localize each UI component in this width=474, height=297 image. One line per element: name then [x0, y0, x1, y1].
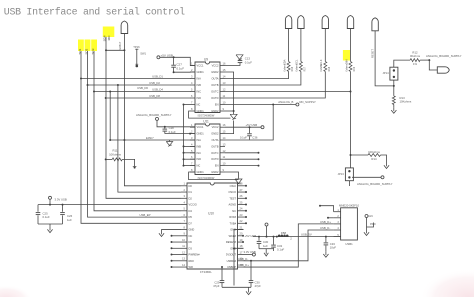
U10 pin 4 [181, 204, 187, 206]
wire U10 pin19 stub [242, 241, 245, 243]
svg-text:10: 10 [223, 162, 226, 166]
net label DIN (highlighted) [343, 50, 350, 61]
svg-text:+5V USB: +5V USB [161, 53, 173, 57]
svg-text:MNE20-5K5F10: MNE20-5K5F10 [339, 203, 359, 207]
resistor R17 [300, 28, 302, 62]
svg-text:22: 22 [240, 219, 243, 223]
junction U11 pin 4 [183, 145, 185, 147]
watermark blob bottom-left [0, 285, 32, 297]
svg-text:2: 2 [191, 130, 193, 134]
jumper JP13 [345, 168, 353, 181]
capacitor C33 [325, 237, 327, 243]
svg-text:2: 2 [191, 68, 193, 72]
svg-text:10uF: 10uF [330, 246, 337, 250]
U10 pin 19 [238, 241, 244, 243]
wire [174, 71, 195, 73]
svg-text:JP14: JP14 [382, 71, 389, 75]
junction U11 pin 6 [183, 158, 185, 160]
net USB_D- wire [244, 230, 334, 261]
svg-text:12: 12 [182, 250, 185, 254]
wire [350, 92, 352, 168]
net USB_D2 wire [88, 84, 191, 86]
wire U10 pin20 stub [242, 235, 245, 237]
node +5V USB [157, 56, 160, 59]
svg-text:3: 3 [184, 194, 186, 198]
junction U11 pin 5 [183, 152, 185, 154]
svg-text:U10: U10 [208, 212, 214, 216]
svg-text:EN: EN [215, 103, 219, 107]
svg-text:ANALOG_BOARD_SUPPLY: ANALOG_BOARD_SUPPLY [357, 182, 393, 186]
bus tap U10 pin 9 [172, 235, 182, 237]
svg-text:R18: R18 [328, 66, 331, 71]
U10 pin 1 [181, 185, 187, 187]
U10 pin 16 [238, 260, 244, 262]
bus tap U10 pin 12 [172, 254, 182, 256]
svg-text:OUTC: OUTC [211, 90, 218, 94]
svg-text:11: 11 [223, 94, 226, 98]
U11 pin 10 [220, 165, 225, 167]
junction [123, 49, 125, 51]
svg-text:13: 13 [182, 257, 185, 261]
USB1 pin 5 [334, 236, 341, 238]
svg-text:1%: 1% [413, 62, 418, 66]
capacitor C36 [249, 127, 251, 133]
bus tap U10 pin 26 [244, 197, 247, 199]
wire [375, 31, 394, 86]
svg-text:0.1uF: 0.1uF [240, 136, 247, 140]
svg-text:8: 8 [184, 225, 186, 229]
U11 pin 6 [190, 158, 195, 160]
svg-text:RESET: RESET [371, 49, 375, 58]
U11 pin 2 [190, 133, 195, 135]
wire [124, 34, 181, 186]
svg-text:1uF: 1uF [263, 244, 268, 248]
svg-text:D5: D5 [189, 215, 193, 219]
svg-text:USB_D8: USB_D8 [149, 94, 160, 98]
svg-text:U9: U9 [204, 58, 208, 62]
svg-text:OUTB: OUTB [211, 83, 218, 87]
resistor R19 [350, 28, 352, 62]
U11 pin 5 [190, 152, 195, 154]
wire U11 pin8 to ground [189, 172, 239, 180]
svg-text:USB_D1: USB_D1 [152, 74, 163, 78]
svg-text:USB Interface and serial contr: USB Interface and serial control [4, 7, 185, 18]
svg-text:D1: D1 [189, 190, 193, 194]
svg-text:1: 1 [191, 62, 193, 66]
svg-text:USB_5V: USB_5V [301, 233, 312, 237]
svg-text:TEST: TEST [229, 196, 236, 200]
svg-text:47pF: 47pF [213, 284, 220, 288]
svg-text:NC: NC [197, 164, 201, 168]
svg-text:2: 2 [290, 237, 292, 241]
ground [161, 231, 163, 235]
svg-text:11: 11 [182, 244, 185, 248]
svg-text:U11: U11 [203, 120, 209, 124]
U10 pin 26 [238, 197, 244, 199]
U11 pin 13 [220, 145, 225, 147]
ground [366, 230, 368, 234]
svg-text:GND2: GND2 [211, 70, 219, 74]
U11 pin 8 [190, 171, 195, 173]
junction [173, 56, 175, 58]
svg-text:RD#: RD# [189, 259, 195, 263]
net USB_D8 wire [106, 97, 191, 99]
svg-text:0.1uF: 0.1uF [245, 60, 252, 64]
svg-text:RESET#: RESET# [226, 240, 237, 244]
U11 pin 1 [190, 126, 195, 128]
junction [350, 91, 352, 93]
svg-text:GND: GND [189, 228, 195, 232]
svg-text:7: 7 [191, 101, 193, 105]
wire [122, 159, 134, 166]
wire [225, 63, 240, 66]
U9 pin 8 [190, 110, 195, 112]
bus wire [106, 37, 181, 199]
svg-text:TP16: TP16 [133, 45, 140, 49]
wire U9 pin8 to ground [189, 111, 231, 118]
svg-text:1uF: 1uF [67, 218, 72, 222]
svg-text:0ohms: 0ohms [345, 63, 348, 71]
svg-text:+5V USB: +5V USB [246, 123, 258, 127]
U9 pin 6 [190, 97, 195, 99]
svg-text:0.1uF: 0.1uF [176, 67, 184, 71]
ground [235, 179, 242, 184]
svg-text:GND1: GND1 [197, 70, 205, 74]
U10 pin 21 [238, 229, 244, 231]
svg-text:USB_D-: USB_D- [320, 226, 330, 230]
node 3.3V USB at pin17 [244, 254, 253, 256]
bus wire [118, 85, 181, 192]
svg-text:OUTA: OUTA [211, 77, 218, 81]
net E0SI7 wire [110, 139, 195, 141]
svg-text:ISO7240MDW: ISO7240MDW [198, 176, 215, 180]
svg-text:USBDM: USBDM [227, 259, 236, 263]
svg-text:INB: INB [197, 83, 202, 87]
svg-text:1: 1 [184, 182, 186, 186]
junction [105, 97, 107, 99]
junction [109, 139, 111, 141]
svg-text:12: 12 [223, 149, 226, 153]
svg-text:ANALOG_BOARD_SUPPLY: ANALOG_BOARD_SUPPLY [426, 54, 462, 58]
svg-text:INB: INB [197, 144, 202, 148]
svg-text:USB_D6: USB_D6 [137, 86, 148, 90]
svg-text:0.1uF: 0.1uF [277, 248, 284, 252]
svg-text:10: 10 [182, 238, 185, 242]
node GND pad [365, 215, 368, 218]
svg-text:6: 6 [184, 213, 186, 217]
wire [420, 59, 429, 61]
svg-text:R14: R14 [371, 157, 377, 161]
U10 pin 22 [238, 222, 244, 224]
svg-text:12: 12 [223, 88, 226, 92]
U9 pin 10 [220, 104, 225, 106]
net OUTD wire [225, 91, 351, 93]
wire U11 pin15 to ground [225, 121, 234, 134]
svg-text:D6: D6 [189, 240, 193, 244]
bus tap U10 pin 28 [244, 185, 247, 187]
junction [173, 71, 175, 73]
svg-text:3: 3 [191, 136, 193, 140]
U9 pin 12 [220, 91, 225, 93]
U11 pin 12 [220, 152, 225, 154]
resistor R12 [394, 60, 410, 67]
svg-text:OSCI: OSCI [230, 184, 237, 188]
capacitor C26 [62, 205, 64, 212]
svg-text:USB_EP: USB_EP [139, 213, 150, 217]
isolator U11 [195, 124, 220, 175]
svg-text:INA: INA [197, 77, 202, 81]
svg-text:NC: NC [197, 103, 201, 107]
wire U10 pin18 [234, 247, 244, 249]
svg-text:OUTA: OUTA [211, 138, 218, 142]
svg-text:7: 7 [191, 162, 193, 166]
U10 pin 9 [181, 235, 187, 237]
U9 pin 4 [190, 84, 195, 86]
bus tap U10 pin 25 [244, 204, 247, 206]
svg-text:13: 13 [223, 81, 226, 85]
svg-text:DIN: DIN [344, 59, 348, 64]
bus wire [88, 85, 182, 217]
svg-text:PAD: PAD [370, 222, 376, 226]
U11 pin 16 [220, 126, 225, 128]
junction [87, 84, 89, 86]
svg-text:R17: R17 [303, 66, 306, 71]
svg-text:USBDP: USBDP [227, 265, 236, 269]
svg-text:13: 13 [223, 142, 226, 146]
svg-text:3.3V USB: 3.3V USB [55, 198, 67, 202]
U9 pin 16 [220, 65, 225, 67]
svg-text:9: 9 [184, 232, 186, 236]
U11 pin 11 [220, 158, 225, 160]
svg-text:OUTD: OUTD [211, 157, 218, 161]
junction [93, 91, 95, 93]
svg-text:D3: D3 [189, 246, 193, 250]
svg-text:17: 17 [240, 250, 243, 254]
svg-text:18: 18 [240, 244, 243, 248]
net label IN1 (highlighted) [78, 40, 84, 52]
svg-text:VCC2: VCC2 [212, 64, 219, 68]
connector pin RESET [372, 18, 378, 31]
svg-text:TXE#: TXE# [230, 221, 237, 225]
junction [233, 110, 235, 112]
svg-text:INC: INC [197, 90, 202, 94]
wire [38, 223, 63, 225]
svg-text:2: 2 [184, 188, 186, 192]
ground [248, 287, 250, 288]
capacitor C13 [238, 60, 243, 62]
svg-text:GND1: GND1 [197, 109, 205, 113]
bus wire [94, 92, 181, 211]
wire [222, 286, 251, 288]
wire [184, 104, 191, 106]
U10 pin 20 [238, 235, 244, 237]
svg-text:FT245RL: FT245RL [200, 270, 212, 274]
wire [49, 199, 51, 204]
ground [393, 105, 395, 108]
wire [259, 248, 274, 250]
U11 pin 9 [220, 171, 225, 173]
connector pin SCL [298, 16, 304, 29]
svg-text:GND1: GND1 [197, 170, 205, 174]
junction [393, 85, 395, 87]
U10 pin 5 [181, 210, 187, 212]
ground [169, 140, 171, 142]
bus wire [81, 79, 181, 224]
USB1 pin 2 [334, 217, 341, 219]
svg-text:10Kohms: 10Kohms [368, 150, 380, 154]
capacitor C28 [164, 127, 166, 129]
svg-text:IND: IND [197, 157, 202, 161]
wire [165, 133, 195, 135]
watermark blob bottom-right [420, 269, 474, 297]
svg-text:WKE#: WKE# [229, 234, 237, 238]
wire [225, 72, 325, 99]
capacitor C32 [273, 236, 275, 238]
U10 pin 28 [238, 185, 244, 187]
svg-text:VCCIO: VCCIO [189, 203, 197, 207]
USB1 pin 4 [334, 229, 341, 231]
svg-text:SCL: SCL [295, 59, 299, 65]
junction [221, 266, 223, 268]
capacitor C25 [37, 205, 39, 212]
wire [87, 51, 89, 85]
bus tap U10 pin 14 [172, 266, 182, 268]
svg-text:MO: MO [107, 35, 111, 40]
U11 pin 15 [220, 133, 225, 135]
U9 pin 14 [220, 78, 225, 80]
bus tap U10 pin 22 [244, 222, 247, 224]
node ANALOG_BOARD_SUPPLY [352, 176, 381, 178]
U10 pin 6 [181, 216, 187, 218]
U10 pin 27 [238, 191, 244, 193]
svg-text:E0517: E0517 [118, 41, 122, 49]
bus tap U10 pin 13 [172, 260, 182, 262]
rail 3.3V USB [38, 204, 181, 206]
net +5V USB node [225, 126, 261, 128]
wire U9 pin9 to ground [225, 110, 234, 112]
U9 pin 2 [190, 71, 195, 73]
svg-text:E0SI7: E0SI7 [146, 136, 154, 140]
net USB_D+ wire [244, 224, 334, 267]
svg-text:6: 6 [191, 94, 193, 98]
bus tap U10 pin 23 [244, 216, 247, 218]
svg-text:10Kohms: 10Kohms [109, 152, 121, 156]
connector pin DIN [347, 16, 353, 29]
junction [62, 204, 64, 206]
svg-text:USB_D+: USB_D+ [238, 263, 249, 267]
svg-text:0ohms: 0ohms [283, 63, 286, 71]
U9 pin 11 [220, 97, 225, 99]
wire [225, 72, 301, 86]
ground [233, 111, 235, 114]
U10 pin 11 [181, 247, 187, 249]
U10 pin 17 [238, 254, 244, 256]
svg-text:USB_D-: USB_D- [238, 257, 248, 261]
svg-text:9: 9 [223, 107, 225, 111]
wire [366, 218, 368, 230]
net USB_D4 wire [94, 91, 190, 93]
svg-text:ANALOG_B: ANALOG_B [278, 100, 293, 104]
resistor R16 [288, 28, 290, 62]
junction [233, 248, 235, 250]
svg-text:INC: INC [197, 151, 202, 155]
svg-text:ANALOG_BOARD_SUPPLY: ANALOG_BOARD_SUPPLY [136, 113, 172, 117]
wire [381, 155, 387, 163]
junction [49, 204, 51, 206]
wire U9 pin15 to ground rail [225, 72, 234, 111]
svg-text:RD_SUPPLY: RD_SUPPLY [300, 100, 317, 104]
junction [183, 104, 185, 106]
U9 pin 1 [190, 65, 195, 67]
wire U11 output stub [225, 152, 259, 154]
svg-text:3V3OUT: 3V3OUT [226, 253, 237, 257]
bus tap U10 pin 11 [172, 247, 182, 249]
U10 pin 2 [181, 191, 187, 193]
resistor R13 [392, 96, 395, 105]
svg-text:0.1uF: 0.1uF [43, 215, 50, 219]
svg-text:0ohms: 0ohms [320, 63, 323, 71]
junction [276, 236, 278, 238]
svg-text:6: 6 [191, 155, 193, 159]
svg-text:9: 9 [223, 168, 225, 172]
wire [157, 120, 195, 126]
svg-text:7: 7 [184, 219, 186, 223]
svg-text:5: 5 [191, 88, 193, 92]
net label IN3 (highlighted) [91, 40, 97, 52]
svg-text:OSCO: OSCO [228, 190, 236, 194]
svg-text:INA: INA [197, 138, 202, 142]
USB1 pin 1 [334, 211, 341, 213]
U10 pin 8 [181, 229, 187, 231]
svg-text:0ohms: 0ohms [296, 63, 299, 71]
junction U11 pin 7 [183, 165, 185, 167]
svg-text:16: 16 [223, 62, 226, 66]
junction [105, 49, 107, 51]
U10 pin 18 [238, 247, 244, 249]
svg-text:GND2: GND2 [211, 109, 219, 113]
svg-text:GND2: GND2 [211, 170, 219, 174]
svg-text:27: 27 [240, 188, 243, 192]
svg-text:AGND: AGND [229, 203, 237, 207]
junction [325, 236, 327, 238]
svg-text:14: 14 [223, 136, 226, 140]
U9 pin 5 [190, 91, 195, 93]
U10 pin 10 [181, 241, 187, 243]
svg-text:10: 10 [223, 101, 226, 105]
wire [393, 80, 395, 96]
svg-text:D0: D0 [189, 184, 193, 188]
junction [250, 260, 252, 262]
net label IN2 (highlighted) [85, 40, 91, 52]
U10 pin 15 [238, 266, 244, 268]
svg-text:GN: GN [369, 214, 373, 218]
connector J1 pin [121, 21, 128, 34]
svg-text:USB_D4: USB_D4 [152, 87, 163, 91]
svg-text:14: 14 [182, 263, 185, 267]
svg-text:4: 4 [191, 81, 193, 85]
wire [429, 60, 437, 70]
svg-text:PWREN#: PWREN# [189, 253, 201, 257]
net label IN4 (highlighted) [103, 27, 115, 38]
svg-text:OUTC: OUTC [211, 151, 218, 155]
U11 pin 7 [190, 165, 195, 167]
U9 pin 9 [220, 110, 225, 112]
svg-text:D7: D7 [189, 221, 193, 225]
resistor R11 [105, 158, 107, 160]
wire [225, 72, 289, 79]
svg-text:15: 15 [223, 68, 226, 72]
svg-text:24: 24 [240, 207, 243, 211]
